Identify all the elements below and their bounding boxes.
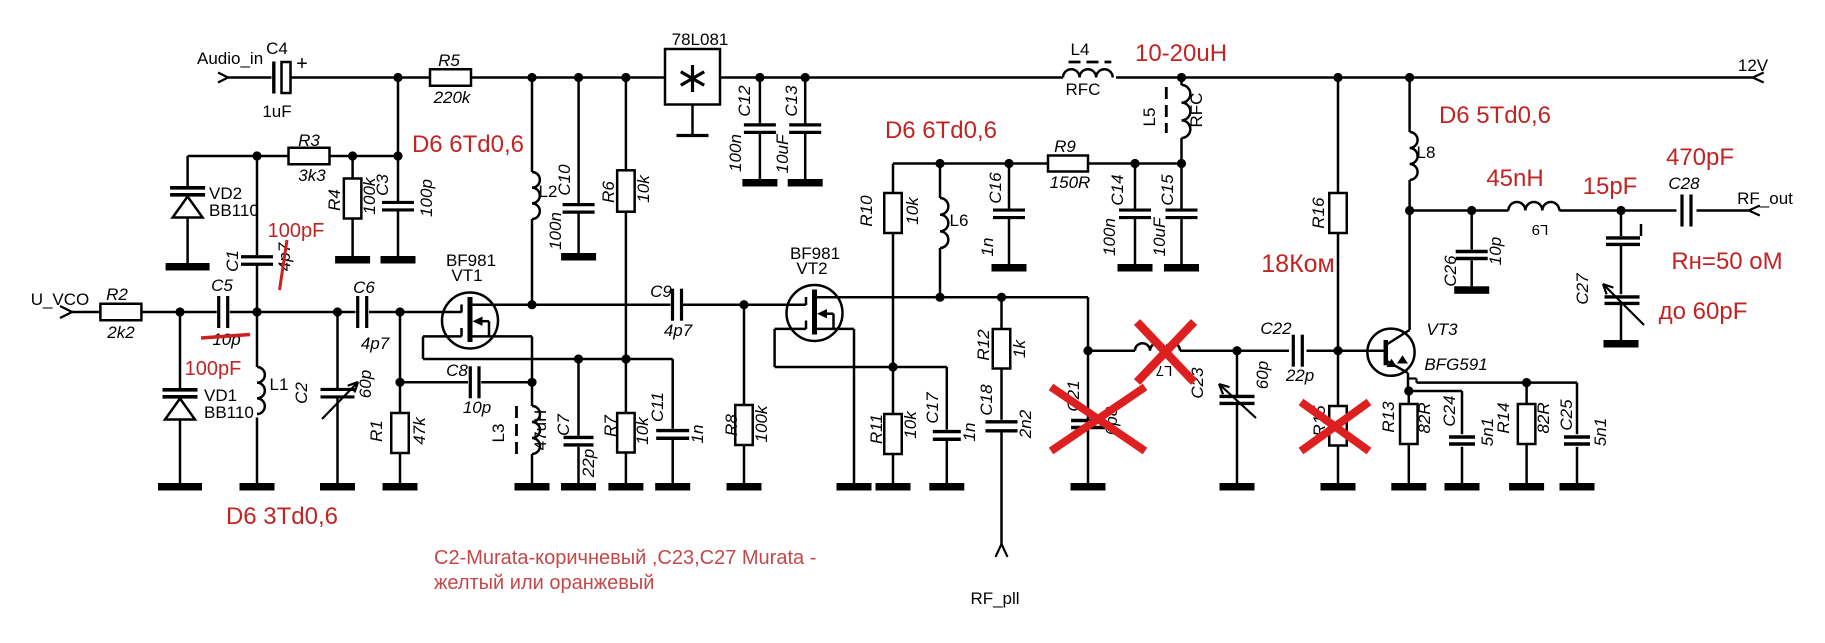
svg-text:L1: L1 [270, 375, 289, 394]
svg-text:60p: 60p [1253, 361, 1272, 389]
svg-text:R10: R10 [857, 195, 876, 227]
svg-text:150R: 150R [1050, 173, 1091, 192]
svg-text:C13: C13 [782, 85, 801, 117]
svg-text:R14: R14 [1494, 402, 1513, 433]
svg-text:C2-Murata-коричневый ,C23,C27: C2-Murata-коричневый ,C23,C27 Murata - [434, 547, 816, 569]
svg-text:10k: 10k [634, 174, 653, 203]
svg-text:100pF: 100pF [268, 220, 325, 242]
svg-text:78L081: 78L081 [672, 30, 729, 49]
svg-text:C10: C10 [555, 164, 574, 196]
svg-text:47k: 47k [410, 416, 429, 445]
svg-text:18Ком: 18Ком [1261, 250, 1334, 278]
svg-text:D6 3Td0,6: D6 3Td0,6 [226, 503, 338, 530]
svg-text:C15: C15 [1158, 174, 1177, 206]
svg-text:10p: 10p [463, 398, 491, 417]
svg-text:12V: 12V [1738, 56, 1769, 75]
svg-text:C6: C6 [353, 278, 375, 297]
svg-text:C4: C4 [266, 39, 288, 58]
svg-text:L6: L6 [950, 211, 969, 230]
svg-text:100n: 100n [726, 134, 745, 172]
svg-text:220k: 220k [433, 88, 472, 107]
svg-text:D6 5Td0,6: D6 5Td0,6 [1439, 102, 1551, 129]
svg-text:100p: 100p [417, 179, 436, 217]
svg-text:C24: C24 [1440, 395, 1459, 426]
svg-text:Audio_in: Audio_in [197, 49, 263, 68]
svg-text:1n: 1n [960, 423, 979, 442]
svg-text:C5: C5 [211, 276, 233, 295]
svg-text:+: + [296, 53, 308, 75]
svg-text:100pF: 100pF [185, 358, 242, 380]
svg-text:C12: C12 [735, 85, 754, 117]
svg-text:2k2: 2k2 [106, 323, 135, 342]
svg-text:R13: R13 [1379, 401, 1398, 433]
svg-text:L4: L4 [1071, 40, 1090, 59]
svg-text:C26: C26 [1441, 255, 1460, 287]
svg-text:100k: 100k [752, 404, 771, 442]
svg-text:R9: R9 [1054, 137, 1076, 156]
svg-text:R8: R8 [722, 414, 741, 436]
svg-text:2n2: 2n2 [1016, 409, 1035, 439]
svg-text:C2: C2 [292, 382, 311, 404]
svg-text:R11: R11 [867, 414, 886, 444]
svg-text:VT1: VT1 [451, 266, 482, 285]
svg-text:до 60pF: до 60pF [1659, 298, 1748, 325]
svg-text:47uH: 47uH [531, 410, 550, 451]
svg-text:82R: 82R [1534, 402, 1553, 433]
svg-text:RFC: RFC [1187, 93, 1206, 128]
svg-text:D6 6Td0,6: D6 6Td0,6 [885, 117, 997, 144]
svg-text:1n: 1n [688, 425, 707, 444]
svg-text:470pF: 470pF [1666, 144, 1734, 171]
svg-text:VT2: VT2 [796, 259, 827, 278]
svg-text:C3: C3 [373, 174, 392, 196]
svg-text:RFC: RFC [1066, 80, 1101, 99]
svg-text:BFG591: BFG591 [1424, 355, 1487, 374]
svg-text:BB110: BB110 [209, 201, 259, 220]
svg-text:R2: R2 [106, 285, 128, 304]
svg-text:R12: R12 [974, 329, 993, 361]
svg-text:60p: 60p [356, 370, 375, 398]
svg-text:R16: R16 [1309, 197, 1328, 229]
svg-text:15pF: 15pF [1583, 173, 1638, 200]
svg-text:D6 6Td0,6: D6 6Td0,6 [412, 131, 524, 158]
svg-text:4p7: 4p7 [664, 321, 693, 340]
svg-text:R3: R3 [298, 131, 320, 150]
svg-text:C16: C16 [986, 172, 1005, 204]
svg-text:3k3: 3k3 [298, 166, 326, 185]
svg-text:VT3: VT3 [1426, 320, 1458, 339]
svg-text:C28: C28 [1668, 174, 1700, 193]
svg-text:RF_pll: RF_pll [970, 589, 1019, 608]
svg-text:L9: L9 [1532, 221, 1549, 238]
svg-text:L3: L3 [489, 424, 508, 443]
svg-text:C22: C22 [1260, 319, 1292, 338]
svg-text:1k: 1k [1010, 339, 1029, 358]
svg-text:R7: R7 [601, 415, 620, 437]
svg-text:R4: R4 [325, 189, 344, 211]
svg-text:1uF: 1uF [262, 102, 291, 121]
svg-text:C11: C11 [648, 392, 667, 422]
svg-text:C14: C14 [1108, 174, 1127, 205]
svg-text:C27: C27 [1573, 273, 1592, 305]
svg-text:10p: 10p [1486, 237, 1505, 265]
svg-text:C9: C9 [650, 282, 672, 301]
svg-text:1n: 1n [978, 238, 997, 257]
svg-text:100n: 100n [546, 212, 565, 250]
svg-text:C8: C8 [446, 361, 468, 380]
svg-text:R6: R6 [599, 181, 618, 203]
svg-text:10-20uH: 10-20uH [1135, 40, 1227, 67]
svg-text:R1: R1 [367, 420, 386, 442]
svg-text:4p7: 4p7 [361, 334, 390, 353]
svg-text:22p: 22p [1285, 366, 1314, 385]
svg-text:R5: R5 [438, 51, 460, 70]
svg-text:C25: C25 [1557, 399, 1576, 431]
svg-text:C7: C7 [554, 414, 573, 436]
svg-text:L5: L5 [1140, 108, 1159, 127]
svg-text:10uF: 10uF [1150, 216, 1169, 256]
svg-text:45nH: 45nH [1486, 165, 1543, 192]
svg-text:10k: 10k [901, 410, 920, 439]
svg-text:C17: C17 [923, 392, 942, 424]
svg-text:C1: C1 [223, 250, 242, 272]
svg-text:L8: L8 [1417, 143, 1436, 162]
svg-text:желтый или оранжевый: желтый или оранжевый [434, 572, 654, 594]
svg-text:10uF: 10uF [773, 133, 792, 173]
svg-text:RF_out: RF_out [1737, 189, 1793, 208]
svg-text:BB110: BB110 [204, 403, 254, 422]
svg-text:82R: 82R [1415, 402, 1434, 433]
svg-text:100n: 100n [1100, 218, 1119, 256]
svg-text:C18: C18 [977, 384, 996, 416]
svg-text:10k: 10k [903, 196, 922, 225]
svg-text:Rн=50 оМ: Rн=50 оМ [1671, 248, 1782, 275]
svg-text:10p: 10p [212, 330, 240, 349]
svg-text:22p: 22p [579, 449, 598, 478]
svg-text:5n1: 5n1 [1591, 418, 1610, 446]
